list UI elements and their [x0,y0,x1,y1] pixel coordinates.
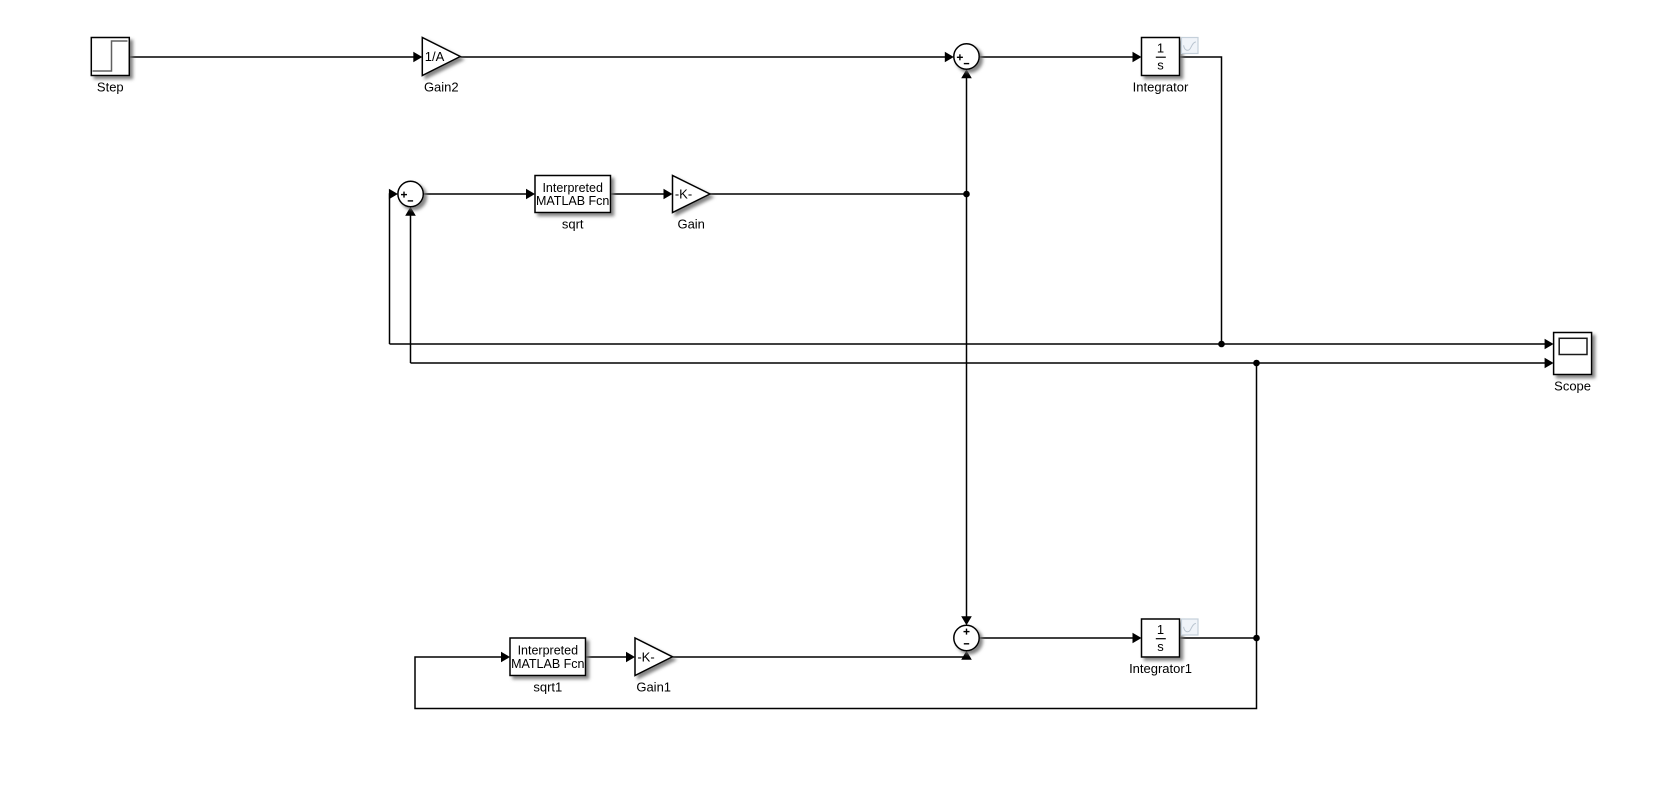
wire feedback loop to sqrt1 [415,363,1257,709]
svg-text:Gain: Gain [677,217,704,232]
node junction Integrator1 output [1253,635,1260,642]
sum block Sum1 (middle-left) [398,181,423,206]
svg-text:Integrator1: Integrator1 [1129,661,1192,676]
wire sqrt1 to Gain1 [586,656,627,658]
integrator block Integrator1 [1142,619,1180,657]
svg-text:Integrator: Integrator [1133,80,1189,95]
wire rail1 up to Sum1 left input [390,194,391,344]
wire Gain2 to Sum [460,56,945,58]
wire Gain1 up to Sum2 minus [673,657,967,658]
wire rail to Scope input 1 [390,343,1546,345]
scope block Scope [1554,333,1592,375]
svg-text:1: 1 [1157,622,1164,637]
wire Step to Gain2 [130,56,415,58]
wire rail2 to Scope input 2 [411,362,1546,364]
wire Sum1 to sqrt [423,193,526,195]
sum block Sum (top) [954,44,979,69]
svg-text:MATLAB Fcn: MATLAB Fcn [511,657,584,671]
svg-text:sqrt: sqrt [562,217,584,232]
svg-text:1/A: 1/A [425,49,445,64]
function block sqrt1 [510,638,586,676]
wire Gain to vertical trunk [710,193,967,195]
wire Integrator output down to rail [1180,57,1222,344]
function block sqrt [535,176,611,213]
gain block Gain2 [422,38,460,76]
svg-text:1: 1 [1157,40,1164,55]
wire Integrator1 output to junction [1180,637,1257,639]
svg-text:s: s [1157,639,1164,654]
svg-text:sqrt1: sqrt1 [533,680,562,695]
node junction on rail2 [1253,360,1260,367]
svg-text:s: s [1157,57,1164,72]
svg-text:Interpreted: Interpreted [542,181,603,195]
gain block Gain [673,176,711,213]
wire vertical trunk up to Sum minus and down to Sum2 plus [966,77,968,618]
wire Sum2 to Integrator1 [979,637,1133,639]
integrator block Integrator [1142,38,1180,76]
wire rail2 up to Sum1 bottom input [410,215,412,363]
logging badge on Integrator [1182,38,1199,54]
step source block Step [91,38,129,76]
logging badge on Integrator1 [1182,619,1199,635]
svg-text:Step: Step [97,80,124,95]
svg-text:-K-: -K- [637,649,654,664]
svg-text:Scope: Scope [1554,379,1591,394]
svg-text:Gain2: Gain2 [424,80,459,95]
node junction on rail1 [1218,341,1225,348]
svg-text:Interpreted: Interpreted [518,644,579,658]
sum block Sum2 (bottom) [954,625,979,650]
wire sqrt to Gain [611,193,665,195]
wire Sum to Integrator [979,56,1133,58]
svg-text:Gain1: Gain1 [636,680,671,695]
node junction Gain output [963,191,970,198]
svg-text:-K-: -K- [675,187,692,202]
gain block Gain1 [635,638,673,676]
svg-text:MATLAB Fcn: MATLAB Fcn [536,194,609,208]
